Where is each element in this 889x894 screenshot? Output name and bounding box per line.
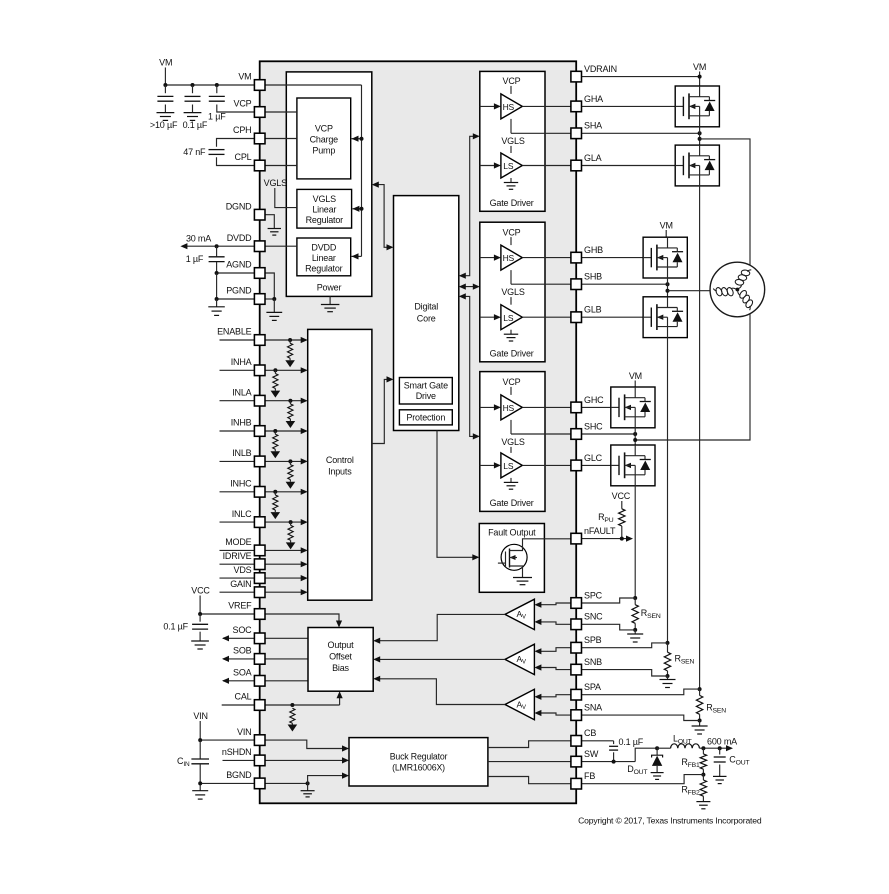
regulator VGLS box [297, 189, 352, 228]
svg-text:VCP: VCP [503, 377, 521, 387]
svg-text:Regulator: Regulator [305, 264, 343, 274]
svg-text:GLC: GLC [584, 453, 603, 463]
capacitor 0.1uF VM [183, 85, 208, 130]
op-amp Av A [505, 689, 534, 719]
svg-text:GHB: GHB [584, 245, 603, 255]
svg-text:RFB2: RFB2 [681, 785, 700, 797]
svg-text:PGND: PGND [226, 286, 252, 296]
wire INHC internal + pulldown resistor [220, 489, 308, 519]
wire nFAULT external [581, 536, 633, 542]
wire nSHDN internal [265, 757, 349, 763]
power block outline [286, 72, 372, 297]
capacitor 47nF CPH-CPL [183, 139, 254, 166]
resistor RPU [598, 509, 625, 539]
node VM phase C [629, 371, 642, 387]
svg-text:DVDD: DVDD [311, 243, 336, 253]
svg-text:IDRIVE: IDRIVE [223, 551, 252, 561]
resistor RSEN C [627, 596, 661, 642]
svg-text:RSEN: RSEN [675, 654, 695, 666]
svg-text:Gate Driver: Gate Driver [490, 348, 534, 358]
wire VM feed vertical [361, 85, 363, 256]
wire SW external [581, 748, 657, 763]
svg-text:0.1 µF: 0.1 µF [183, 120, 208, 130]
svg-text:nSHDN: nSHDN [222, 747, 252, 757]
svg-text:HS: HS [503, 102, 515, 112]
svg-text:Power: Power [317, 283, 342, 293]
svg-text:Core: Core [417, 314, 436, 324]
resistor RSEN A [692, 687, 727, 734]
node VM top-left [159, 58, 172, 86]
gate driver block C [480, 372, 571, 512]
svg-text:SW: SW [584, 749, 599, 759]
svg-text:SOB: SOB [233, 646, 252, 656]
svg-text:1 µF: 1 µF [186, 254, 204, 264]
svg-text:VREF: VREF [228, 601, 252, 611]
svg-text:DGND: DGND [226, 201, 252, 211]
svg-text:CB: CB [584, 728, 596, 738]
wire GHB external [581, 257, 643, 259]
svg-text:>10 µF: >10 µF [150, 120, 178, 130]
capacitor CIN [177, 740, 209, 799]
wire SPB to Av B [534, 648, 571, 655]
svg-text:INLC: INLC [232, 509, 252, 519]
svg-text:SNB: SNB [584, 657, 602, 667]
wire GAIN internal [220, 589, 308, 595]
wire power to core [372, 182, 394, 251]
wire INLA internal + pulldown resistor [220, 398, 308, 428]
wire DGND internal + ground [265, 215, 281, 235]
svg-text:SHB: SHB [584, 272, 602, 282]
svg-text:VCP: VCP [234, 99, 252, 109]
transistor Q6 low-side C [611, 445, 655, 486]
svg-text:Digital: Digital [414, 302, 438, 312]
wire buck FB out [488, 777, 571, 784]
svg-text:VCP: VCP [503, 76, 521, 86]
wire SOA external arrow [222, 678, 254, 684]
svg-text:SNA: SNA [584, 703, 602, 713]
svg-text:LS: LS [503, 461, 514, 471]
svg-text:SPA: SPA [584, 682, 601, 692]
wire AGND internal [265, 273, 274, 299]
wire core to gate driver A [459, 133, 480, 279]
svg-text:Offset: Offset [329, 652, 352, 662]
svg-text:DVDD: DVDD [227, 233, 252, 243]
svg-text:VGLS: VGLS [264, 178, 287, 188]
svg-text:SPC: SPC [584, 590, 603, 600]
svg-text:FB: FB [584, 771, 595, 781]
capacitor 1uF DVDD [186, 246, 225, 273]
copyright [578, 816, 762, 826]
wire PGND external + ground [208, 273, 254, 315]
svg-text:LOUT: LOUT [673, 734, 692, 746]
svg-text:(LMR16006X): (LMR16006X) [392, 763, 445, 773]
transistor Q1 high-side A [675, 86, 719, 127]
svg-text:HS: HS [503, 253, 515, 263]
capacitor COUT + ground [713, 748, 749, 783]
wire PGND internal + ground [265, 297, 282, 320]
svg-text:VGLS: VGLS [501, 437, 524, 447]
wire VREF internal to offset box [265, 614, 342, 628]
wire SPA external [581, 689, 699, 695]
svg-text:BGND: BGND [226, 770, 252, 780]
svg-text:Linear: Linear [312, 205, 336, 215]
wire arrow into VGLS regulator [352, 206, 363, 212]
wire nSHDN external [223, 759, 255, 761]
node VCC nFAULT [612, 491, 631, 509]
svg-text:SPB: SPB [584, 635, 602, 645]
svg-text:Regulator: Regulator [306, 215, 344, 225]
wire GHA external [581, 105, 675, 107]
svg-text:Bias: Bias [332, 663, 349, 673]
wire buck SW out [488, 761, 571, 763]
svg-text:CIN: CIN [177, 756, 190, 768]
wire SNB to Av B [534, 664, 571, 670]
svg-text:DOUT: DOUT [627, 764, 647, 776]
resistor RFB2 + ground [681, 775, 710, 809]
wire INHA internal + pulldown resistor [220, 367, 308, 397]
IC body DRV8353R [260, 61, 577, 803]
svg-text:VM: VM [159, 58, 172, 68]
wire control to core [372, 376, 394, 443]
diode DOUT schottky + ground [627, 746, 663, 779]
wire ENABLE internal + pulldown resistor [220, 337, 308, 367]
motor BLDC [710, 262, 765, 317]
svg-text:CAL: CAL [235, 692, 252, 702]
svg-text:SNC: SNC [584, 612, 603, 622]
wire core to fault output [437, 431, 479, 561]
wire SHB external [581, 278, 669, 297]
wire GLB external [581, 316, 643, 318]
gate driver block A [480, 71, 571, 211]
svg-text:VM: VM [660, 220, 673, 230]
wire SOA internal [265, 680, 308, 682]
svg-text:600 mA: 600 mA [707, 737, 737, 747]
svg-text:INHA: INHA [231, 357, 252, 367]
node VM phase B [660, 220, 673, 237]
svg-text:LS: LS [503, 313, 514, 323]
svg-text:Output: Output [328, 640, 355, 650]
capacitor 1uF VCP [208, 85, 254, 122]
svg-text:Smart Gate: Smart Gate [404, 381, 448, 391]
buck regulator box [349, 738, 488, 786]
svg-text:VM: VM [629, 371, 642, 381]
resistor RSEN B [660, 641, 695, 688]
wire VDS internal [220, 575, 308, 581]
wire VM internal [265, 84, 362, 86]
wire INLB internal + pulldown resistor [220, 458, 308, 488]
svg-text:GHA: GHA [584, 94, 603, 104]
svg-text:Buck Regulator: Buck Regulator [390, 752, 448, 762]
svg-text:RSEN: RSEN [706, 703, 726, 715]
wire buck CB out [488, 741, 571, 748]
wire SHB to motor [668, 290, 738, 292]
wire FB external [581, 775, 703, 784]
wire Av C output to offset box [373, 614, 505, 643]
svg-text:GHC: GHC [584, 395, 604, 405]
svg-text:1 µF: 1 µF [208, 112, 226, 122]
svg-text:VCP: VCP [315, 124, 333, 134]
wire MODE internal [220, 547, 308, 553]
wire arrow into VCP charge pump [352, 136, 364, 142]
wire SOB internal [265, 658, 308, 660]
wire SNA external [581, 715, 699, 720]
wire Av B output to offset box [373, 656, 505, 662]
wire buck output 600mA [699, 737, 737, 752]
wire arrow into DVDD regulator [352, 253, 362, 259]
node VGLS internal [264, 178, 297, 208]
smart gate drive box [399, 378, 452, 405]
svg-text:GAIN: GAIN [230, 579, 251, 589]
wire SHC external [581, 428, 637, 445]
svg-text:VDRAIN: VDRAIN [584, 64, 617, 74]
inductor LOUT [657, 734, 699, 749]
svg-text:VM: VM [238, 72, 251, 82]
wire CPH internal [265, 138, 297, 140]
svg-text:INLA: INLA [232, 387, 251, 397]
capacitor 0.1uF VREF + ground [163, 614, 209, 649]
wire VCP internal [265, 111, 297, 113]
svg-text:VIN: VIN [237, 727, 251, 737]
svg-text:Copyright © 2017, Texas Instru: Copyright © 2017, Texas Instruments Inco… [578, 816, 762, 826]
svg-text:Gate Driver: Gate Driver [490, 198, 534, 208]
wire SOB external arrow [222, 656, 254, 662]
svg-text:HS: HS [503, 403, 515, 413]
svg-text:SOA: SOA [233, 668, 252, 678]
node VCC left [191, 586, 210, 615]
wire SNB external [581, 670, 667, 676]
svg-text:VDS: VDS [234, 565, 252, 575]
svg-text:30 mA: 30 mA [186, 234, 211, 244]
pin squares [254, 71, 581, 789]
fault output block [479, 524, 571, 593]
wire VDRAIN external [581, 75, 701, 79]
svg-text:INHC: INHC [230, 479, 252, 489]
svg-text:0.1 µF: 0.1 µF [163, 622, 188, 632]
wire SHA to motor [635, 139, 750, 440]
svg-text:SHA: SHA [584, 121, 602, 131]
wire DVDD internal [265, 245, 297, 247]
svg-text:Drive: Drive [416, 391, 436, 401]
svg-text:Charge: Charge [310, 135, 339, 145]
svg-text:VCC: VCC [612, 491, 631, 501]
wire INLC internal + pulldown resistor [220, 519, 308, 549]
svg-text:INLB: INLB [232, 448, 251, 458]
wire SHA external [581, 127, 701, 145]
svg-text:47 nF: 47 nF [183, 147, 206, 157]
wire SNC external [581, 624, 635, 630]
wire core to gate driver B [459, 284, 480, 290]
wire GHC external [581, 406, 610, 408]
svg-text:VM: VM [693, 62, 706, 72]
svg-text:0.1 µF: 0.1 µF [619, 737, 644, 747]
wire BGND external [198, 781, 254, 785]
wire VIN internal [265, 740, 349, 752]
svg-text:INHB: INHB [231, 418, 252, 428]
svg-text:RPU: RPU [598, 512, 614, 524]
svg-text:Inputs: Inputs [328, 467, 352, 477]
wire SNA to Av A [534, 710, 571, 716]
svg-text:LS: LS [503, 161, 514, 171]
label Power [317, 283, 342, 293]
svg-text:VGLS: VGLS [501, 287, 524, 297]
wire SPC to Av C [534, 602, 571, 608]
node VM phase A [693, 62, 706, 86]
svg-text:VIN: VIN [193, 711, 207, 721]
svg-text:RSEN: RSEN [641, 608, 661, 620]
protection box [399, 410, 452, 425]
capacitor 0.1uF CB [581, 737, 643, 762]
svg-text:Protection: Protection [406, 413, 445, 423]
svg-text:RFB1: RFB1 [681, 757, 700, 769]
svg-text:Control: Control [326, 455, 354, 465]
transistor Q2 low-side A [675, 145, 719, 186]
wire CAL external [222, 704, 255, 706]
svg-text:SHC: SHC [584, 421, 603, 431]
wire IDRIVE internal [220, 561, 308, 567]
wire GLA external [581, 165, 675, 167]
gate driver block B [480, 222, 571, 362]
wire SPC external [581, 598, 635, 603]
resistor RFB1 [681, 748, 706, 776]
transistor Q5 high-side C [611, 387, 655, 428]
transistor Q3 high-side B [643, 237, 687, 278]
control inputs box [308, 329, 372, 600]
wire core to gate driver C [459, 293, 480, 439]
wire SPB external [581, 643, 667, 648]
svg-text:VCC: VCC [191, 586, 210, 596]
capacitor >10uF [150, 85, 178, 130]
wire Av A output to offset box [373, 676, 505, 705]
op-amp Av B [505, 644, 534, 674]
digital core box [394, 196, 459, 431]
wire SNC to Av C [534, 619, 571, 625]
wire phase A sense line [699, 186, 701, 689]
svg-text:VGLS: VGLS [501, 136, 524, 146]
output offset bias box [308, 628, 373, 692]
svg-text:GLA: GLA [584, 153, 602, 163]
wire CPL internal [265, 165, 297, 167]
wire INHB internal + pulldown resistor [220, 428, 308, 458]
svg-text:CPL: CPL [235, 152, 252, 162]
svg-text:Fault Output: Fault Output [488, 528, 536, 538]
wire VREF external [198, 612, 254, 616]
wire BGND internal + ground [265, 773, 349, 797]
svg-text:ENABLE: ENABLE [217, 327, 252, 337]
svg-text:SOC: SOC [233, 625, 253, 635]
wire SOC internal [265, 637, 308, 639]
svg-text:Gate Driver: Gate Driver [490, 498, 534, 508]
svg-text:VGLS: VGLS [313, 194, 336, 204]
svg-text:COUT: COUT [729, 755, 749, 767]
charge pump VCP box [297, 98, 351, 179]
wire SOC external arrow [222, 635, 254, 641]
ground power block [321, 296, 340, 311]
wire AGND external [215, 271, 255, 275]
wire VM rail [163, 83, 254, 87]
node VIN top [193, 711, 207, 740]
wire GLC external [581, 464, 610, 466]
wire DVDD 30mA output [180, 234, 254, 250]
svg-text:Pump: Pump [312, 146, 335, 156]
svg-text:Linear: Linear [312, 253, 336, 263]
wire phase C sense line [634, 486, 636, 598]
svg-text:VCP: VCP [503, 227, 521, 237]
op-amp Av C [505, 599, 534, 629]
wire VIN external [198, 738, 254, 742]
wire CAL internal + pulldown resistor [265, 691, 343, 731]
wire phase B sense line [667, 338, 669, 643]
wire SPA to Av A [534, 694, 571, 700]
regulator DVDD box [297, 238, 351, 276]
svg-text:AGND: AGND [226, 260, 252, 270]
svg-text:GLB: GLB [584, 305, 602, 315]
svg-text:nFAULT: nFAULT [584, 526, 616, 536]
svg-text:CPH: CPH [233, 125, 251, 135]
transistor Q4 low-side B [643, 297, 687, 338]
svg-text:MODE: MODE [225, 537, 251, 547]
